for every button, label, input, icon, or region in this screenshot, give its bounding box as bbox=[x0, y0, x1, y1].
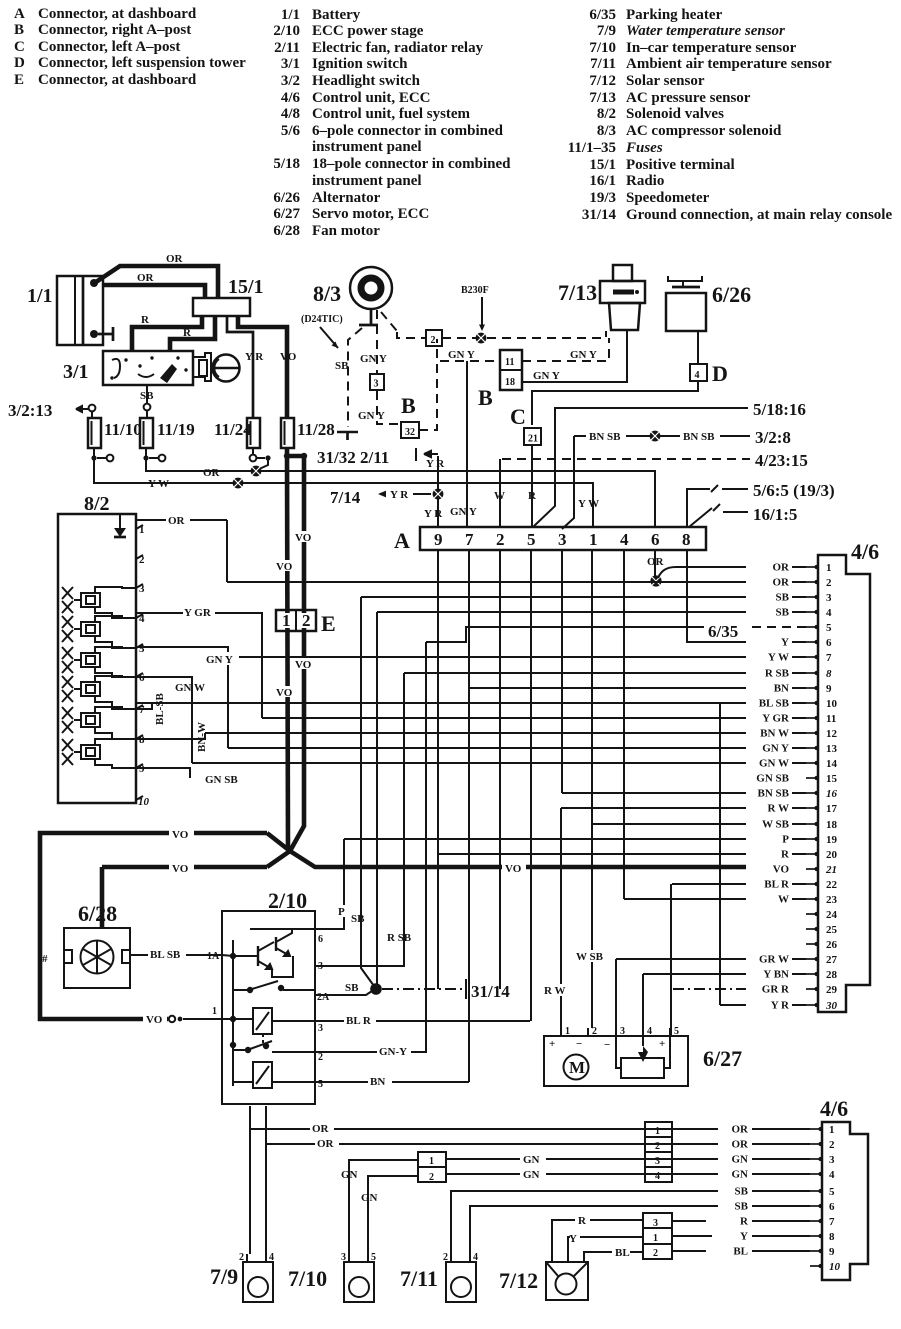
connector block 1/2 bbox=[418, 1152, 446, 1183]
svg-text:VO: VO bbox=[172, 863, 189, 875]
svg-text:OR: OR bbox=[773, 577, 791, 589]
svg-text:+: + bbox=[659, 1038, 665, 1050]
wire R W to 4/6:17 bbox=[561, 807, 746, 809]
svg-text:9: 9 bbox=[829, 1246, 835, 1258]
svg-text:2: 2 bbox=[318, 1052, 323, 1063]
label D24TIC with arrow bbox=[301, 314, 343, 348]
svg-text:27: 27 bbox=[826, 954, 838, 966]
svg-text:1A: 1A bbox=[207, 951, 220, 962]
svg-text:7/12: 7/12 bbox=[589, 73, 616, 89]
svg-text:2: 2 bbox=[443, 1252, 448, 1263]
wire SB to 4/6:4 bbox=[377, 611, 746, 613]
svg-text:SB: SB bbox=[735, 1186, 749, 1198]
junction Y W bus bbox=[233, 478, 244, 489]
svg-text:Y W: Y W bbox=[768, 652, 789, 664]
svg-text:18: 18 bbox=[505, 377, 515, 388]
wire Y to lower 4/6:8 bbox=[752, 1235, 810, 1237]
wire A:5 down to BL R row bbox=[530, 550, 532, 1021]
svg-text:E: E bbox=[321, 611, 336, 636]
svg-text:BL R: BL R bbox=[764, 879, 790, 891]
svg-text:11/28: 11/28 bbox=[297, 420, 335, 439]
svg-text:4/23:15: 4/23:15 bbox=[755, 451, 808, 470]
wire BL 7/12 row bbox=[584, 1247, 643, 1262]
wire GN SB 8/2:9 bbox=[136, 768, 190, 778]
svg-text:BL SB: BL SB bbox=[759, 698, 790, 710]
svg-text:11: 11 bbox=[505, 357, 514, 368]
svg-text:3: 3 bbox=[653, 1218, 658, 1229]
wire Y to 5/6:5 (19/3) bbox=[687, 481, 835, 527]
wire VO 15/1 to fuse 11/28 bbox=[238, 316, 297, 418]
svg-text:3/2: 3/2 bbox=[281, 73, 300, 89]
svg-text:Y: Y bbox=[569, 1233, 577, 1245]
wire W SB label on A:1 drop bbox=[574, 950, 606, 963]
wire GN Y 5/18:18 to 7/13 bbox=[522, 331, 627, 382]
svg-text:GN: GN bbox=[523, 1169, 540, 1181]
svg-text:BN: BN bbox=[370, 1076, 385, 1088]
svg-text:Y R: Y R bbox=[771, 1000, 790, 1012]
2/10 lower switch bbox=[233, 1034, 315, 1052]
svg-text:5: 5 bbox=[371, 1252, 376, 1263]
svg-text:Y R: Y R bbox=[426, 458, 445, 470]
dashed wire GN Y 5/18:11 to 7/13 bbox=[522, 338, 609, 361]
8/2 pin ticks bbox=[136, 525, 143, 800]
junction on compressor bus bbox=[476, 333, 487, 344]
connector 4/6 upper pins bbox=[806, 562, 838, 1012]
svg-text:Radio: Radio bbox=[626, 173, 664, 189]
wire GR W to 6/27:3 bbox=[615, 959, 617, 1036]
ignition key symbol bbox=[213, 355, 240, 382]
legend column 2 bbox=[273, 7, 511, 239]
svg-text:1: 1 bbox=[212, 1006, 217, 1017]
wire R 15/1 to ignition (left) bbox=[132, 314, 202, 351]
svg-text:8/2: 8/2 bbox=[84, 493, 110, 515]
svg-text:Y: Y bbox=[740, 1231, 748, 1243]
wire GN Y 8/2:5 bbox=[136, 647, 239, 748]
svg-text:23: 23 bbox=[826, 894, 838, 906]
fuse 11/19 bbox=[140, 418, 195, 448]
svg-text:7: 7 bbox=[829, 1216, 835, 1228]
svg-text:6/28: 6/28 bbox=[273, 223, 300, 239]
svg-text:6/26: 6/26 bbox=[712, 282, 751, 307]
svg-text:11/10: 11/10 bbox=[104, 420, 142, 439]
svg-text:AC compressor solenoid: AC compressor solenoid bbox=[626, 123, 782, 139]
svg-text:8/2: 8/2 bbox=[597, 106, 616, 122]
svg-text:3: 3 bbox=[558, 530, 567, 549]
svg-text:Speedometer: Speedometer bbox=[626, 190, 710, 206]
svg-text:6: 6 bbox=[826, 637, 832, 649]
wire VO to 2/10:1 bbox=[143, 1006, 222, 1026]
svg-text:15/1: 15/1 bbox=[228, 276, 264, 298]
svg-text:2: 2 bbox=[429, 1172, 434, 1183]
wire OR battery to 15/1 (upper) bbox=[96, 253, 218, 298]
label Y W at A:1 bbox=[578, 498, 599, 510]
dashed wire box2 to 7/13 bbox=[442, 331, 606, 338]
svg-text:29: 29 bbox=[826, 984, 838, 996]
svg-text:Connector, left suspension tow: Connector, left suspension tower bbox=[38, 55, 246, 71]
svg-text:Positive terminal: Positive terminal bbox=[626, 157, 735, 173]
svg-text:3: 3 bbox=[374, 379, 379, 390]
dashed wire GN Y to 5/18 pin 11 bbox=[440, 349, 500, 361]
svg-text:OR: OR bbox=[732, 1139, 750, 1151]
svg-text:3: 3 bbox=[318, 1023, 323, 1034]
svg-text:28: 28 bbox=[826, 969, 838, 981]
connector box 32 bbox=[401, 422, 419, 438]
dashed wire 8/3 to box 2 bbox=[381, 312, 425, 338]
svg-text:VO: VO bbox=[773, 864, 790, 876]
svg-text:Headlight switch: Headlight switch bbox=[312, 73, 421, 89]
svg-text:2: 2 bbox=[592, 1026, 597, 1037]
wire Y R to 4/6:30 bbox=[720, 1004, 746, 1006]
alternator 6/26 bbox=[666, 276, 751, 331]
svg-text:OR: OR bbox=[203, 467, 221, 479]
connector 4/6 lower bbox=[820, 1096, 868, 1280]
svg-text:Y BN: Y BN bbox=[763, 969, 789, 981]
svg-text:BN-W: BN-W bbox=[196, 722, 208, 752]
svg-text:4: 4 bbox=[647, 1026, 652, 1037]
svg-text:B230F: B230F bbox=[461, 285, 489, 296]
svg-text:6/35: 6/35 bbox=[589, 7, 616, 23]
svg-text:9: 9 bbox=[434, 530, 443, 549]
wire SB to 4/6:3 bbox=[361, 596, 746, 598]
wire BN W 8/2:8 bbox=[136, 722, 208, 752]
svg-text:P: P bbox=[338, 906, 345, 918]
svg-text:5: 5 bbox=[318, 1079, 323, 1090]
lower section: wire OR to 7/9:2 bbox=[250, 1106, 718, 1254]
svg-text:5/6: 5/6 bbox=[281, 123, 301, 139]
wire SB 7/11:2 row bbox=[451, 1191, 718, 1254]
svg-text:17: 17 bbox=[826, 803, 838, 815]
svg-text:VO: VO bbox=[505, 863, 522, 875]
wire BN SB to 3/2:8 bbox=[562, 428, 791, 529]
svg-text:BN SB: BN SB bbox=[589, 431, 621, 443]
legend column 3 bbox=[568, 7, 893, 223]
svg-text:2: 2 bbox=[655, 1141, 660, 1152]
svg-text:14: 14 bbox=[826, 758, 838, 770]
svg-text:R: R bbox=[528, 490, 537, 502]
svg-text:R W: R W bbox=[768, 803, 790, 815]
svg-text:3/1: 3/1 bbox=[281, 56, 300, 72]
svg-text:BL: BL bbox=[733, 1246, 748, 1258]
svg-text:GN: GN bbox=[523, 1154, 540, 1166]
AC compressor solenoid 8/3 bbox=[313, 267, 392, 325]
wire BN SB to 4/6:16 bbox=[562, 792, 746, 794]
svg-text:8: 8 bbox=[826, 668, 832, 680]
svg-text:4: 4 bbox=[269, 1252, 274, 1263]
svg-text:6: 6 bbox=[318, 934, 323, 945]
svg-text:A: A bbox=[394, 528, 410, 553]
svg-text:VO: VO bbox=[280, 351, 297, 363]
svg-text:BL: BL bbox=[615, 1247, 630, 1259]
wire GN-Y 2/10:2 row bbox=[315, 642, 426, 1058]
svg-text:2: 2 bbox=[239, 1252, 244, 1263]
wire 6/26 to connector D bbox=[697, 331, 699, 364]
svg-text:4: 4 bbox=[829, 1169, 835, 1181]
svg-text:W SB: W SB bbox=[762, 819, 790, 831]
svg-text:Connector, right A–post: Connector, right A–post bbox=[38, 22, 191, 38]
svg-text:Y GR: Y GR bbox=[762, 713, 790, 725]
wire SB ignition to fuse 11/19 bbox=[140, 385, 154, 418]
svg-text:4/6: 4/6 bbox=[851, 539, 879, 564]
wire Y W bus bbox=[94, 458, 593, 527]
VO labels on X wires bbox=[169, 827, 526, 875]
ground 8/3 bbox=[337, 432, 358, 440]
svg-text:1: 1 bbox=[565, 1026, 570, 1037]
wire GN W 8/2:6 bbox=[136, 677, 205, 763]
svg-text:A: A bbox=[14, 6, 25, 22]
svg-text:Control unit, fuel system: Control unit, fuel system bbox=[312, 106, 471, 122]
svg-text:(D24TIC): (D24TIC) bbox=[301, 314, 343, 325]
svg-text:26: 26 bbox=[826, 939, 838, 951]
svg-text:7/10: 7/10 bbox=[288, 1266, 327, 1291]
connector box 2 bbox=[426, 330, 442, 346]
svg-text:W: W bbox=[778, 894, 789, 906]
svg-text:Y R: Y R bbox=[245, 351, 264, 363]
svg-text:5/18: 5/18 bbox=[273, 156, 300, 172]
svg-text:GN W: GN W bbox=[175, 682, 205, 694]
servo motor 6/27 bbox=[544, 1026, 742, 1086]
legend column 1 bbox=[14, 6, 246, 88]
wire to 16/1:5 bbox=[689, 504, 797, 527]
svg-text:13: 13 bbox=[826, 743, 838, 755]
junction OR bus bbox=[251, 466, 262, 477]
svg-text:2/10: 2/10 bbox=[273, 23, 300, 39]
svg-text:VO: VO bbox=[276, 687, 293, 699]
svg-text:B: B bbox=[14, 22, 24, 38]
svg-text:32: 32 bbox=[405, 427, 415, 438]
solar sensor 7/12 bbox=[499, 1262, 588, 1300]
wire A:8 down to Y row bbox=[687, 550, 697, 642]
wire A:6 stub to OR junction bbox=[647, 550, 665, 576]
svg-text:2: 2 bbox=[302, 611, 311, 630]
battery negative stub bbox=[98, 327, 113, 341]
solenoid valve block 8/2 bbox=[58, 493, 136, 803]
wire GR R to 6/27:5 bbox=[671, 884, 746, 1036]
wire GN W to 4/6:14 bbox=[192, 762, 746, 764]
svg-text:GN Y: GN Y bbox=[450, 506, 477, 518]
wire OR battery to 15/1 (lower) bbox=[103, 272, 205, 298]
svg-text:OR: OR bbox=[168, 515, 186, 527]
wire 5/18:16 callout bbox=[533, 400, 806, 527]
node C / connector box 21 bbox=[510, 404, 541, 527]
svg-text:1: 1 bbox=[429, 1156, 434, 1167]
wire P to 4/6:19 bbox=[344, 838, 746, 840]
svg-text:Water temperature sensor: Water temperature sensor bbox=[626, 23, 785, 39]
dashed wire from 32 up to compressor bus bbox=[419, 339, 437, 430]
wire R 7/12 row bbox=[552, 1215, 643, 1262]
svg-text:Battery: Battery bbox=[312, 7, 361, 23]
svg-text:3/1: 3/1 bbox=[63, 361, 89, 383]
svg-text:31/32 2/11: 31/32 2/11 bbox=[317, 448, 389, 467]
ECC power stage 2/10 bbox=[222, 888, 315, 1104]
wire Y W to 4/6:7 bbox=[232, 656, 746, 658]
pressure sensor 7/13 bbox=[558, 265, 645, 330]
wire 6/35 dashed to 4/6:5 bbox=[426, 622, 806, 642]
svg-text:Y R: Y R bbox=[390, 489, 409, 501]
label 31/32 2/11 with arrow bbox=[317, 448, 438, 467]
svg-text:D: D bbox=[712, 361, 728, 386]
svg-text:3: 3 bbox=[655, 1156, 660, 1167]
wire P SB 2/10:6 to 4/6:19 bbox=[315, 839, 365, 929]
wire BN to 4/6:9 bbox=[469, 687, 746, 689]
junction OR below A:6 bbox=[650, 575, 661, 586]
fuse 11/24 bbox=[214, 418, 260, 448]
svg-text:8: 8 bbox=[682, 530, 691, 549]
svg-text:Fan motor: Fan motor bbox=[312, 223, 380, 239]
svg-text:2: 2 bbox=[431, 335, 436, 346]
svg-text:7/9: 7/9 bbox=[597, 23, 616, 39]
label B230F with arrow bbox=[461, 285, 489, 331]
svg-text:Connector, at dashboard: Connector, at dashboard bbox=[38, 6, 197, 22]
svg-text:D: D bbox=[14, 55, 25, 71]
wire BL SB 8/2:7 bbox=[136, 693, 166, 725]
svg-text:7/9: 7/9 bbox=[210, 1264, 238, 1289]
svg-text:Ambient air temperature sensor: Ambient air temperature sensor bbox=[626, 56, 832, 72]
ambient air temperature sensor 7/11 bbox=[400, 1252, 478, 1302]
svg-text:SB: SB bbox=[345, 982, 359, 994]
svg-text:5: 5 bbox=[829, 1186, 835, 1198]
svg-text:4/6: 4/6 bbox=[281, 90, 301, 106]
svg-text:11/19: 11/19 bbox=[157, 420, 195, 439]
svg-text:−: − bbox=[576, 1038, 582, 1050]
dashed wire W to 4/23:15 bbox=[494, 451, 808, 527]
svg-text:3: 3 bbox=[826, 592, 832, 604]
connector strip A bbox=[394, 527, 706, 553]
svg-text:VO: VO bbox=[172, 829, 189, 841]
wire GN box1/2 to 7/10:3 bbox=[341, 1160, 418, 1254]
wire BL R 2/10:3 row bbox=[315, 1014, 530, 1027]
wire OR junction curve to 4/6:1 bbox=[658, 567, 806, 578]
svg-text:21: 21 bbox=[825, 864, 837, 876]
junction Y R at A:9 bbox=[433, 489, 444, 500]
svg-text:7/12: 7/12 bbox=[499, 1268, 538, 1293]
svg-text:1/1: 1/1 bbox=[27, 285, 53, 307]
svg-text:6/27: 6/27 bbox=[273, 206, 300, 222]
wire GN box1/2 to 7/10:5 bbox=[361, 1176, 418, 1254]
svg-text:instrument panel: instrument panel bbox=[312, 139, 422, 155]
wire A:3 BN SB down to 4/6:16 row bbox=[561, 550, 563, 793]
wire GR W to 4/6:27 bbox=[616, 958, 746, 960]
svg-text:E: E bbox=[14, 72, 24, 88]
2/10 right pin numbers bbox=[317, 934, 330, 1090]
svg-text:R W: R W bbox=[544, 985, 566, 997]
svg-text:1: 1 bbox=[589, 530, 598, 549]
wire SB 7/11:4 row bbox=[470, 1206, 718, 1254]
svg-text:BN SB: BN SB bbox=[758, 788, 790, 800]
svg-text:VO: VO bbox=[146, 1014, 163, 1026]
svg-text:11: 11 bbox=[826, 713, 836, 725]
svg-text:Connector, at dashboard: Connector, at dashboard bbox=[38, 72, 197, 88]
lower section: wire OR to 7/9:4 bbox=[266, 1106, 718, 1254]
svg-text:7/14: 7/14 bbox=[330, 488, 361, 507]
svg-text:Ignition switch: Ignition switch bbox=[312, 56, 408, 72]
svg-text:ECC power stage: ECC power stage bbox=[312, 23, 424, 39]
solenoid valve 4 bbox=[62, 676, 136, 709]
svg-text:OR: OR bbox=[166, 253, 184, 265]
svg-text:Connector, left A–post: Connector, left A–post bbox=[38, 39, 180, 55]
wire Y R down to 4/6:30 bbox=[719, 703, 721, 1005]
svg-text:1: 1 bbox=[653, 1233, 658, 1244]
svg-text:4: 4 bbox=[826, 607, 832, 619]
svg-text:2/11: 2/11 bbox=[274, 40, 300, 56]
svg-text:GN Y: GN Y bbox=[360, 353, 387, 365]
svg-text:15/1: 15/1 bbox=[589, 157, 616, 173]
connector 5/18 pins 11 18 bbox=[500, 350, 522, 390]
wire R Y BL label-side segments bbox=[672, 1221, 712, 1251]
svg-text:GR R: GR R bbox=[762, 984, 790, 996]
svg-text:8/3: 8/3 bbox=[313, 281, 341, 306]
svg-text:W SB: W SB bbox=[576, 951, 604, 963]
svg-text:OR: OR bbox=[773, 562, 791, 574]
8/2 pin numbers bbox=[138, 524, 150, 808]
svg-text:VO: VO bbox=[295, 532, 312, 544]
svg-text:Solar sensor: Solar sensor bbox=[626, 73, 705, 89]
positive terminal 15/1 bbox=[193, 276, 264, 316]
svg-text:6/28: 6/28 bbox=[78, 901, 117, 926]
wire Y 7/12 row bbox=[568, 1233, 643, 1262]
dashed wire SB 8/3 to ground bbox=[335, 328, 362, 427]
svg-text:3: 3 bbox=[341, 1252, 346, 1263]
fuse 11/10 bbox=[88, 418, 142, 448]
wire A:1 down to 6/27:2 (W SB) bbox=[591, 550, 593, 1028]
svg-text:AC pressure sensor: AC pressure sensor bbox=[626, 90, 751, 106]
svg-text:24: 24 bbox=[826, 909, 838, 921]
svg-text:3: 3 bbox=[620, 1026, 625, 1037]
connector box 3 bbox=[370, 374, 384, 390]
svg-text:18–pole connector in combined: 18–pole connector in combined bbox=[312, 156, 511, 172]
svg-text:2: 2 bbox=[653, 1248, 658, 1259]
wire A:7 down to BN row bbox=[468, 550, 470, 1082]
svg-text:GN Y: GN Y bbox=[206, 654, 233, 666]
wire OR to 4/6:2 bbox=[227, 581, 746, 583]
2/10 middle switch bbox=[233, 981, 315, 992]
svg-text:2: 2 bbox=[829, 1139, 835, 1151]
2/10 transistor pair bbox=[222, 929, 315, 1086]
svg-text:16/1: 16/1 bbox=[589, 173, 616, 189]
solenoid valve 2 bbox=[62, 616, 136, 648]
svg-text:5/6:5 (19/3): 5/6:5 (19/3) bbox=[753, 481, 835, 500]
svg-text:C: C bbox=[510, 404, 526, 429]
ground point 31/14 bbox=[361, 597, 510, 1001]
svg-text:BN SB: BN SB bbox=[683, 431, 715, 443]
svg-text:GN: GN bbox=[361, 1192, 378, 1204]
svg-text:SB: SB bbox=[776, 592, 790, 604]
svg-text:4: 4 bbox=[620, 530, 629, 549]
2/10 relay coil lower bbox=[233, 1062, 315, 1088]
svg-text:25: 25 bbox=[826, 924, 838, 936]
wire VO thick vertical right bbox=[294, 456, 316, 827]
svg-text:GN: GN bbox=[732, 1169, 749, 1181]
wire Y to 4/6:6 bbox=[697, 641, 746, 643]
wire rows through blocks to labels bbox=[672, 1129, 706, 1174]
svg-text:R: R bbox=[781, 849, 790, 861]
wire SB 2/10:2A to ground bbox=[315, 982, 372, 995]
svg-text:6–pole connector in combined: 6–pole connector in combined bbox=[312, 123, 504, 139]
wire R W to 6/27:1 bbox=[542, 808, 570, 1036]
wire Y BN to 6/27:4 bbox=[642, 974, 644, 1046]
wire BN 2/10:5 row bbox=[315, 1075, 469, 1088]
wire GN SB label gap bbox=[203, 772, 247, 784]
svg-text:8/3: 8/3 bbox=[597, 123, 616, 139]
svg-text:GN Y: GN Y bbox=[448, 349, 475, 361]
svg-text:Ground connection, at main rel: Ground connection, at main relay console bbox=[626, 207, 892, 223]
svg-text:VO: VO bbox=[276, 561, 293, 573]
svg-text:Fuses: Fuses bbox=[625, 140, 663, 156]
wire Y R 15/1 to fuse 11/24 bbox=[227, 316, 264, 418]
fuse 11/19 bottom terminal bbox=[143, 448, 165, 461]
wire GN to lower 4/6:4 bbox=[752, 1173, 810, 1175]
svg-text:OR: OR bbox=[137, 272, 155, 284]
svg-text:1: 1 bbox=[282, 611, 291, 630]
